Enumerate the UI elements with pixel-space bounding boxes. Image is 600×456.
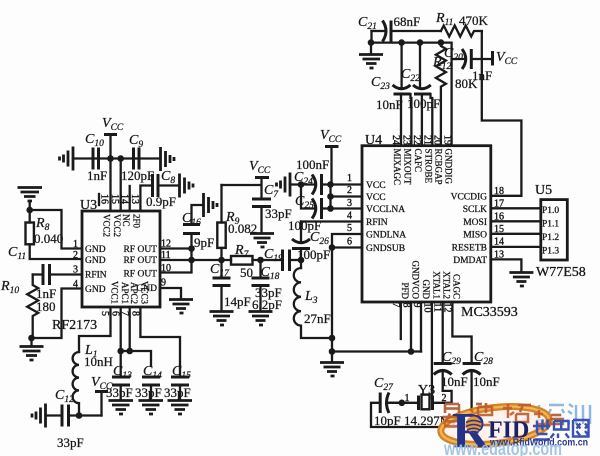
svg-text:10nH: 10nH	[84, 354, 113, 369]
svg-text:RF OUT: RF OUT	[123, 245, 157, 255]
wire pin5 VCC1 to L1	[79, 307, 111, 352]
ground (sideways, above C16)	[204, 193, 218, 217]
svg-text:GND: GND	[421, 280, 431, 300]
capacitor C16 9pF	[182, 205, 214, 250]
svg-text:CAGC: CAGC	[451, 274, 461, 299]
wire pin9 GND	[420, 302, 422, 352]
svg-text:11: 11	[432, 303, 443, 313]
VCC symbol (bottom left)	[91, 375, 113, 416]
U4 pin names top (rotated)	[392, 149, 453, 186]
capacitor C19 (series)	[264, 247, 301, 271]
svg-text:1: 1	[347, 173, 352, 184]
svg-text:180: 180	[36, 299, 56, 314]
U3 pin numbers top 16-13 (rotated with underline)	[99, 194, 141, 205]
char pei warm (lower half)	[534, 410, 563, 424]
char yi	[443, 404, 461, 427]
svg-text:GND: GND	[85, 256, 106, 266]
watermark cyan CJK row (hand-drawn glyph approximations)	[443, 403, 590, 427]
ground (below U4 spine)	[320, 352, 344, 377]
svg-text:10pF: 10pF	[374, 413, 401, 428]
U4 pin names left	[366, 181, 406, 254]
svg-text:C14: C14	[143, 364, 162, 381]
svg-text:GND: GND	[85, 285, 106, 295]
ground (below C14)	[139, 401, 164, 415]
svg-text:1nF: 1nF	[472, 68, 492, 83]
svg-text:VCC: VCC	[366, 181, 386, 191]
resistor R10 180	[0, 275, 56, 339]
capacitor C9 120pF	[121, 133, 154, 183]
ground (sideways, right of C9)	[161, 147, 175, 171]
U4 pin names right	[451, 193, 488, 267]
svg-text:CAFC: CAFC	[413, 149, 423, 173]
ground (below top bus)	[359, 43, 383, 68]
svg-text:P1.2: P1.2	[542, 233, 559, 243]
svg-text:XTAL2: XTAL2	[442, 271, 452, 299]
U4 pin numbers left 1-6	[347, 173, 352, 248]
wire pin8 VCC3 to C15	[140, 307, 180, 366]
wire R11 to VCCDIG pin18	[482, 31, 522, 196]
svg-text:4: 4	[347, 211, 352, 222]
char di warm	[470, 403, 492, 425]
svg-text:VCCLNA: VCCLNA	[366, 205, 405, 215]
node pin15	[117, 155, 124, 162]
inductor L3 27nF	[294, 260, 332, 338]
svg-text:VCC2: VCC2	[112, 214, 122, 237]
svg-text:100pF: 100pF	[288, 218, 321, 233]
svg-text:3: 3	[347, 198, 352, 209]
watermark shi-jie-wang (hand-drawn)	[533, 420, 589, 440]
char shi	[533, 420, 550, 440]
watermark CJK overlap (warm tint over ellipse)	[443, 403, 563, 427]
svg-text:DMDAT: DMDAT	[453, 256, 487, 266]
VCC symbol (top right, sideways)	[493, 50, 518, 67]
node pin8/ground spine	[408, 348, 415, 355]
capacitor C15 33pF	[164, 364, 191, 400]
node C19/C26/L3	[298, 257, 305, 264]
capacitor C11 1nF (series to RFIN)	[33, 264, 82, 301]
svg-text:27nF: 27nF	[304, 311, 331, 326]
svg-text:VCC2: VCC2	[102, 214, 112, 237]
capacitor C21 68nF	[358, 14, 441, 43]
svg-text:C23: C23	[371, 75, 390, 92]
watermark RFID logo ellipse	[439, 401, 551, 449]
wire pin12 CAGC to C28	[452, 302, 471, 364]
svg-text:50: 50	[240, 265, 253, 280]
svg-text:9pF: 9pF	[194, 235, 214, 250]
U3 pin numbers left 1-4	[73, 239, 78, 290]
wire pin16 stub	[109, 159, 111, 212]
char wang	[573, 420, 589, 437]
svg-text:GNDLNA: GNDLNA	[366, 231, 406, 241]
wire pin9 GND to ground	[160, 288, 181, 299]
capacitor C17 14pF	[210, 260, 251, 311]
node VCC/pin16	[107, 155, 114, 162]
svg-text:MC33593: MC33593	[461, 305, 518, 320]
char tuo warm	[503, 404, 531, 422]
svg-text:5: 5	[347, 223, 352, 234]
U5 pin names P1.0-P1.3	[542, 206, 559, 257]
svg-text:8: 8	[400, 303, 411, 308]
node bus pin2	[327, 193, 334, 200]
main RF row	[192, 259, 232, 261]
wire top decoupling rail	[73, 157, 160, 159]
capacitor C14 33pF	[135, 364, 162, 400]
resistor R8 0.040	[26, 210, 83, 259]
capacitor C25 100pF	[288, 185, 331, 234]
svg-text:24: 24	[390, 135, 401, 145]
wire pin4 GND down-left	[32, 289, 83, 339]
watermark logo R	[452, 404, 490, 456]
svg-text:MOSI: MOSI	[463, 218, 487, 228]
svg-text:120pF: 120pF	[121, 168, 154, 183]
char jie	[551, 421, 570, 438]
svg-text:VCC: VCC	[249, 159, 271, 176]
ground (top-left input)	[18, 188, 43, 211]
svg-text:R10: R10	[0, 279, 19, 296]
svg-text:C28: C28	[474, 350, 493, 367]
node Y3/C27	[399, 400, 406, 407]
svg-text:C13: C13	[113, 364, 132, 381]
svg-text:33pF: 33pF	[164, 385, 191, 400]
svg-text:GNDSUB: GNDSUB	[366, 244, 405, 254]
IC U5 W77E58 body	[535, 183, 586, 280]
svg-text:R11: R11	[435, 11, 453, 28]
svg-text:W77E58: W77E58	[536, 265, 586, 280]
svg-text:RF OUT: RF OUT	[123, 270, 157, 280]
resistor R7 50	[231, 243, 283, 280]
capacitor C26 100pF (to RFIN)	[292, 222, 330, 263]
svg-text:C19: C19	[264, 247, 283, 264]
ground (below C18)	[249, 312, 273, 326]
svg-text:33pF: 33pF	[135, 385, 162, 400]
svg-text:SCLK: SCLK	[463, 205, 487, 215]
svg-text:C25: C25	[295, 194, 314, 211]
wire pin14 stub (NC)	[129, 186, 131, 211]
svg-text:2: 2	[442, 393, 447, 404]
svg-text:RESETB: RESETB	[452, 244, 487, 254]
capacitor C23 10nF	[371, 43, 411, 146]
svg-text:RCBGAP: RCBGAP	[434, 149, 444, 185]
inductor L1 10nH	[73, 343, 113, 416]
ground (below pin9)	[169, 300, 193, 314]
node pin11/bus main RF node	[188, 257, 195, 264]
node C24 left	[298, 181, 305, 188]
U4 pin numbers bottom 7-12 (rotated)	[390, 303, 452, 313]
ground (below pin13)	[509, 273, 533, 287]
svg-text:MISO: MISO	[463, 231, 487, 241]
svg-text:6.2pF: 6.2pF	[252, 297, 282, 312]
svg-text:VCCDIG: VCCDIG	[451, 193, 488, 203]
capacitor C22 100pF	[401, 43, 440, 146]
svg-text:0.040: 0.040	[34, 231, 63, 246]
wire pin13 DMDAT to ground	[491, 259, 522, 272]
svg-text:R7: R7	[234, 243, 250, 260]
ground (below C7)	[250, 234, 274, 248]
wire Y3 pin1 row	[389, 402, 418, 404]
svg-text:NC: NC	[121, 214, 131, 227]
svg-text:5: 5	[99, 311, 110, 316]
svg-text:C27: C27	[374, 376, 394, 393]
svg-text:C21: C21	[358, 15, 377, 32]
svg-text:P1.3: P1.3	[542, 247, 559, 257]
node bus/C21	[368, 39, 375, 46]
capacitor C8 0.9pF	[140, 169, 179, 211]
char yi warm	[443, 404, 461, 427]
crystal Y3 14.297MHz	[405, 383, 452, 410]
svg-text:GND: GND	[85, 245, 106, 255]
svg-text:www.edatop.com: www.edatop.com	[443, 439, 562, 456]
svg-text:VCC1: VCC1	[110, 281, 120, 304]
U4 pin names bottom (rotated)	[400, 260, 461, 299]
wire ground node to pin1	[30, 210, 82, 249]
svg-text:VCC: VCC	[496, 50, 518, 67]
svg-text:C20: C20	[444, 46, 463, 63]
U3 pin numbers bottom 5-8 (rotated)	[99, 311, 141, 316]
svg-text:10nF: 10nF	[441, 374, 468, 389]
wire ground spine to pins 8,9	[332, 350, 421, 352]
U3 pin numbers right 12-9	[161, 239, 171, 289]
wire pin15 stub	[120, 159, 122, 212]
node L1/C12	[76, 412, 83, 419]
svg-text:APC1: APC1	[120, 282, 130, 304]
U4 VCC bus (pins 1-3)	[331, 185, 363, 209]
capacitor C20 1nF	[444, 46, 492, 83]
svg-text:C12: C12	[55, 388, 74, 405]
capacitor C24 100nF	[290, 157, 331, 195]
svg-text:0.9pF: 0.9pF	[146, 194, 176, 209]
svg-text:14pF: 14pF	[224, 294, 251, 309]
U3 pin names bottom (rotated): VCC1 APC1 APC2 VCC3	[110, 281, 150, 305]
node: input ground node	[26, 207, 33, 214]
wire pin11 XTAL2 to C29	[442, 302, 444, 364]
svg-text:C9: C9	[129, 133, 143, 150]
svg-text:PFD: PFD	[400, 282, 410, 299]
svg-text:100pF: 100pF	[407, 96, 440, 111]
svg-text:VCC: VCC	[366, 193, 386, 203]
char xun	[567, 404, 590, 425]
wire pins5,6 GNDLNA/GNDSUB to ground	[332, 234, 362, 352]
svg-text:VCC3: VCC3	[140, 281, 150, 305]
capacitor C10 1nF	[85, 132, 107, 183]
char tuo	[503, 404, 531, 422]
svg-text:10: 10	[421, 303, 432, 313]
svg-text:C17: C17	[210, 262, 230, 279]
U3 pin names top (rotated): VCC2 VCC2 NC 2F0	[102, 214, 142, 237]
svg-text:10nF: 10nF	[376, 97, 403, 112]
node bus pin1	[327, 181, 334, 188]
svg-text:P1.1: P1.1	[542, 220, 559, 230]
svg-text:XTAL1: XTAL1	[431, 271, 441, 299]
node R7/C18	[257, 257, 264, 264]
node bus/R11/R12	[438, 39, 445, 46]
ground (below C17)	[210, 312, 234, 326]
svg-text:C15: C15	[172, 364, 191, 381]
resistor R11 470K	[435, 11, 489, 37]
wire pin8 GNDVCO	[410, 302, 412, 352]
wire C29 bottom S-link to Y3 pin2	[443, 391, 452, 403]
svg-text:1nF: 1nF	[87, 168, 107, 183]
svg-text:GNDVCO: GNDVCO	[410, 260, 420, 299]
svg-text:RFIN: RFIN	[366, 218, 388, 228]
node ground spine	[329, 348, 336, 355]
svg-text:MIXOUT: MIXOUT	[402, 149, 412, 185]
svg-text:C22: C22	[401, 67, 420, 84]
wires pins 17-14 to U5	[491, 208, 541, 247]
svg-text:RF OUT: RF OUT	[123, 256, 157, 266]
svg-text:0.082: 0.082	[228, 221, 257, 236]
capacitor C7 33pF	[252, 183, 292, 233]
wire pin19 stub	[450, 59, 452, 146]
U4 pin numbers right 18-13	[494, 186, 504, 261]
ground (sideways, left of C24)	[277, 173, 291, 197]
VCC symbol above U4	[320, 128, 342, 185]
ground (sideways, left of C10)	[60, 147, 74, 171]
wire pin7 PFD stub	[400, 302, 402, 339]
svg-text:33pF: 33pF	[106, 385, 133, 400]
svg-text:2F0: 2F0	[132, 214, 142, 229]
node pin6 row	[117, 348, 124, 355]
ground bus top	[371, 43, 452, 59]
ground (sideways, right of C8)	[180, 174, 194, 198]
char di	[470, 403, 492, 425]
svg-text:U5: U5	[535, 183, 552, 198]
svg-text:RFIN: RFIN	[85, 271, 107, 281]
svg-text:RF2173: RF2173	[52, 318, 97, 333]
svg-text:U3: U3	[80, 198, 97, 213]
wires pins 6,7 to C13/C14 row	[121, 307, 151, 366]
svg-text:VCC: VCC	[320, 128, 342, 145]
svg-text:470K: 470K	[459, 13, 489, 28]
svg-text:MIXAGC: MIXAGC	[392, 149, 402, 186]
capacitor C13 33pF	[106, 351, 133, 400]
svg-text:APC2: APC2	[129, 282, 139, 304]
svg-text:VCC: VCC	[102, 116, 124, 133]
U3 pin names right	[123, 245, 157, 294]
capacitor C28 10nF	[463, 350, 500, 427]
ground (below C13)	[109, 401, 134, 415]
resistor R12 80K	[436, 43, 478, 146]
char pei	[534, 405, 564, 424]
wire RF OUT bus (pins 12,11,10 tied)	[160, 234, 192, 273]
value labels 10pF / 14.297MHz	[374, 413, 467, 428]
VCC symbol (middle)	[222, 159, 271, 199]
node bus pin3	[327, 205, 334, 212]
ground (sideways, left of C12)	[32, 404, 46, 428]
capacitor C29 10nF	[434, 350, 468, 391]
capacitor C27 10pF	[371, 376, 472, 427]
svg-text:U4: U4	[365, 133, 382, 148]
svg-text:100pF: 100pF	[297, 247, 330, 262]
svg-text:P1.0: P1.0	[542, 206, 559, 216]
node pin12/bus	[188, 245, 195, 252]
node pin7 row	[126, 348, 133, 355]
svg-text:33pF: 33pF	[57, 435, 84, 450]
svg-text:C11: C11	[8, 245, 26, 262]
node: R10/pin4 ground node	[28, 335, 35, 342]
svg-text:2: 2	[347, 185, 352, 196]
svg-text:GNDDIG: GNDDIG	[443, 149, 453, 185]
ground (below C15)	[168, 401, 193, 415]
svg-text:STROBE: STROBE	[423, 149, 433, 184]
VCC symbol above U3	[102, 116, 124, 159]
svg-text:10nF: 10nF	[473, 374, 500, 389]
svg-text:68nF: 68nF	[394, 14, 421, 29]
node bus/C22	[417, 39, 424, 46]
IC U3 RF2173 body	[52, 198, 160, 333]
svg-text:8: 8	[130, 311, 141, 316]
wire pin10 XTAL1 to Y3	[431, 302, 433, 399]
wire VCC to R9	[220, 185, 222, 223]
svg-text:C18: C18	[261, 265, 280, 282]
svg-text:100nF: 100nF	[296, 157, 329, 172]
IC U4 MC33593 body	[362, 133, 518, 320]
node R9/C17 on RF row	[218, 257, 225, 264]
svg-text:7: 7	[390, 303, 401, 308]
svg-text:C8: C8	[161, 169, 175, 186]
svg-text:C29: C29	[442, 350, 461, 367]
capacitor C12 33pF	[46, 388, 102, 450]
node pin6	[329, 244, 336, 251]
svg-text:6: 6	[347, 237, 352, 248]
svg-text:C10: C10	[85, 132, 104, 149]
resistor R9 0.082	[217, 210, 257, 260]
capacitor C18 33pF/6.2pF	[252, 260, 282, 312]
wire RFIN row pin4	[301, 220, 362, 222]
ground (below R10)	[20, 338, 44, 360]
svg-text:L3: L3	[304, 289, 318, 306]
node L3 return	[329, 335, 336, 342]
node bus/C23	[398, 39, 405, 46]
U4 pin numbers top 24-19 (rotated)	[390, 135, 452, 145]
U3 pin names left	[85, 245, 107, 295]
